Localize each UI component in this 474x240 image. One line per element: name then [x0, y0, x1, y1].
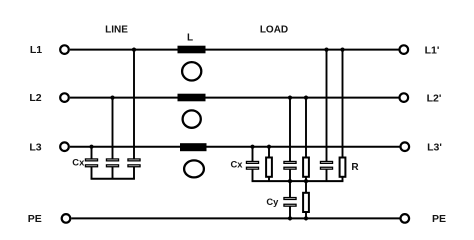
svg-text:Cx: Cx: [231, 158, 244, 169]
terminal L2' right: [400, 93, 409, 102]
inductor L winding 1: [178, 46, 206, 54]
svg-text:L3': L3': [427, 141, 442, 153]
node dot L1 cap tap: [324, 48, 328, 52]
node dot L2 cap tap: [288, 96, 292, 100]
wire L3 tap down to resistor R1: [268, 147, 270, 158]
svg-text:R: R: [351, 162, 359, 173]
node dot L2 resistor tap: [304, 96, 308, 100]
node dot L3 cap tap: [250, 145, 254, 149]
wire L3 tap down to left Cx1: [91, 147, 93, 159]
wire left star bus: [91, 178, 135, 180]
terminal L3 left: [60, 142, 69, 151]
wire right star bus: [252, 180, 344, 182]
svg-text:PE: PE: [28, 213, 42, 225]
terminal L2 left: [60, 93, 69, 102]
capacitor Cy: [284, 198, 296, 219]
wire PE: [71, 217, 399, 219]
svg-text:PE: PE: [432, 213, 446, 225]
capacitor Cx right 1: [246, 161, 258, 181]
node dot L3 left tap: [89, 145, 93, 149]
node dot L3 resistor tap: [267, 145, 271, 149]
wire L1 tap down to left Cx3: [133, 50, 135, 159]
wire bus down to R4: [305, 181, 307, 193]
terminal L1 left: [60, 45, 69, 54]
wire L3: [70, 146, 400, 148]
terminal L3' right: [401, 142, 410, 151]
resistor R1: [266, 158, 272, 182]
inductor L winding 3: [180, 143, 207, 151]
svg-text:Cx: Cx: [72, 157, 85, 168]
svg-text:LOAD: LOAD: [260, 25, 288, 36]
node dot bus Cy tap: [288, 179, 292, 183]
capacitor Cx left 3: [128, 159, 140, 179]
capacitor Cx right 3: [320, 161, 332, 181]
wire L3 tap down to right Cx1: [252, 147, 254, 162]
terminal PE right: [401, 214, 410, 223]
capacitor Cx right 2: [284, 161, 296, 181]
inductor L core circle 2: [183, 110, 201, 127]
svg-text:L3: L3: [29, 141, 41, 153]
node dot PE Cy junction: [288, 216, 292, 220]
capacitor Cx left 2: [106, 159, 118, 179]
capacitor Cx left 1: [85, 159, 97, 179]
wire bus down to Cy: [289, 181, 291, 197]
resistor R4: [303, 193, 309, 219]
svg-text:Cy: Cy: [266, 196, 279, 207]
svg-text:L: L: [187, 32, 193, 43]
node dot L1 resistor tap: [340, 48, 344, 52]
svg-text:L2': L2': [427, 92, 442, 104]
node dot L1 left tap: [132, 48, 136, 52]
svg-text:LINE: LINE: [105, 25, 128, 36]
wire L2 tap down to left Cx2: [112, 98, 114, 159]
resistor R2: [303, 158, 309, 182]
wire L2: [70, 97, 399, 99]
svg-text:L1': L1': [425, 44, 440, 56]
node dot PE R4 junction: [304, 216, 308, 220]
wire L2 tap down to right Cx2: [289, 98, 291, 162]
svg-text:L2: L2: [29, 92, 41, 104]
resistor R3: [340, 158, 346, 182]
node dot bus R4 tap: [304, 179, 308, 183]
wire L1 tap down to right Cx3: [326, 50, 328, 162]
inductor L core circle 1: [182, 62, 201, 80]
inductor L core circle 3: [184, 160, 204, 177]
wire L1 tap down to resistor R3: [342, 50, 344, 158]
node dot L2 left tap: [110, 96, 114, 100]
terminal L1' right: [400, 45, 409, 54]
inductor L winding 2: [178, 94, 206, 102]
svg-text:L1: L1: [30, 44, 42, 56]
wire L2 tap down to resistor R2: [305, 98, 307, 158]
terminal PE left: [62, 214, 71, 223]
wire L1: [70, 49, 399, 51]
